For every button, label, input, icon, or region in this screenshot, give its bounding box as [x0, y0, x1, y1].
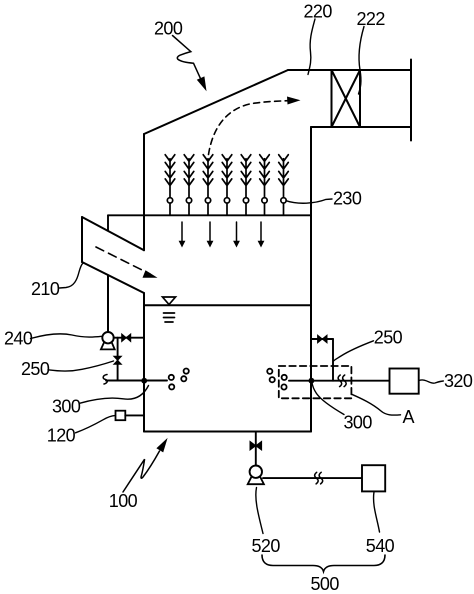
outlet duct bottom wall	[311, 126, 411, 128]
leader for 210	[60, 263, 84, 288]
dashed gas flow arrow in tower top	[209, 101, 292, 155]
device 540 box	[362, 465, 385, 491]
node 300 right junction dot	[309, 378, 315, 384]
spray falling arrow 2	[207, 222, 214, 248]
spray nozzle 5	[241, 155, 251, 216]
discharge pipe to device 540	[263, 477, 362, 479]
feed pipe into tank left	[106, 380, 167, 382]
brace for 500	[262, 555, 385, 572]
sensor 120 connecting line	[125, 414, 144, 416]
svg-text:120: 120	[47, 425, 76, 445]
leader for A	[352, 394, 401, 415]
pump 520	[250, 466, 262, 478]
inlet duct 210 upper slant	[82, 217, 144, 250]
pump 240	[102, 332, 113, 343]
outlet duct top wall 220	[288, 69, 411, 71]
bubbles right	[267, 369, 287, 390]
dashed gas flow arrow in inlet duct	[96, 247, 150, 274]
drain pipe from tank bottom	[255, 432, 257, 467]
device 320 box	[390, 369, 419, 394]
leader for 222	[359, 27, 365, 95]
inlet duct 210 open end	[81, 217, 83, 262]
tank bottom wall	[144, 431, 311, 433]
spray nozzle 1	[165, 155, 175, 216]
leader for 120	[76, 416, 115, 433]
svg-text:250: 250	[374, 327, 403, 347]
water surface line	[145, 304, 311, 306]
demister 222 diagonal 2	[332, 70, 361, 127]
svg-text:240: 240	[4, 328, 33, 348]
leader for 540	[374, 492, 380, 532]
leader arrow for 100	[123, 451, 160, 492]
leader for 250 left	[48, 361, 114, 371]
bubbles left	[169, 369, 189, 390]
sensor 120	[116, 411, 126, 421]
tower left wall lower	[143, 293, 145, 432]
leader for 250 right	[334, 341, 374, 361]
demister 222 diagonal 1	[332, 70, 361, 127]
pipe break squiggle right	[338, 375, 346, 387]
pump 240 base	[101, 342, 115, 350]
inlet duct 210 lower slant	[82, 262, 144, 293]
leader arrow for 200	[173, 36, 201, 79]
valve 250 right stub pipe	[311, 338, 333, 340]
leader for 320	[419, 380, 443, 383]
recirculation pipe to pump 240 upper segment	[107, 275, 109, 332]
leader for 300 left	[80, 386, 149, 404]
pipe break hook left end	[103, 375, 107, 385]
spray nozzle 2	[184, 155, 194, 216]
spray header pipe 230	[108, 214, 311, 216]
dashed region A box	[279, 366, 352, 398]
branch pipe down from pump outlet	[117, 338, 119, 381]
spray nozzle 6	[260, 155, 270, 216]
valve 250 right	[318, 335, 323, 343]
valve on pump 240 outlet	[122, 334, 127, 342]
aeration pipe line to device 320	[289, 380, 390, 382]
header left drop segment	[107, 215, 109, 230]
pump 520 base	[248, 476, 264, 484]
svg-text:520: 520	[252, 536, 281, 556]
tower left wall upper	[143, 134, 145, 250]
svg-text:300: 300	[52, 396, 81, 416]
svg-text:100: 100	[109, 491, 138, 511]
svg-text:220: 220	[304, 1, 333, 21]
svg-text:200: 200	[154, 19, 183, 39]
svg-text:540: 540	[366, 536, 395, 556]
spray nozzle 3	[203, 155, 213, 216]
demister unit 222 box	[332, 70, 361, 127]
leader for 300 right	[312, 383, 344, 415]
spray falling arrow 1	[179, 222, 186, 248]
svg-text:320: 320	[444, 371, 473, 391]
svg-text:210: 210	[31, 279, 60, 299]
spray nozzle 4	[222, 155, 232, 216]
svg-text:222: 222	[357, 9, 386, 29]
spray falling arrow 4	[258, 222, 265, 248]
svg-text:230: 230	[333, 189, 362, 209]
tower right wall	[310, 127, 312, 432]
svg-text:A: A	[403, 407, 415, 427]
drain valve	[250, 441, 256, 450]
svg-text:250: 250	[21, 359, 50, 379]
svg-text:500: 500	[311, 574, 340, 594]
spray nozzle 7	[279, 155, 289, 216]
outlet duct end flange	[410, 60, 412, 141]
node 300 left junction dot	[141, 378, 147, 384]
leader for 520	[256, 488, 263, 534]
pipe break squiggle bottom	[315, 472, 323, 484]
leader for 230	[286, 199, 332, 203]
water level symbol	[163, 297, 176, 322]
leader for 240	[31, 334, 102, 339]
tower roof slant wall	[144, 70, 288, 134]
valve 250 left	[114, 356, 122, 360]
leader for 220	[308, 19, 315, 75]
right branch pipe down	[332, 339, 334, 381]
pump 240 outlet pipe	[114, 337, 144, 339]
spray falling arrow 3	[233, 222, 240, 248]
svg-text:300: 300	[344, 412, 373, 432]
